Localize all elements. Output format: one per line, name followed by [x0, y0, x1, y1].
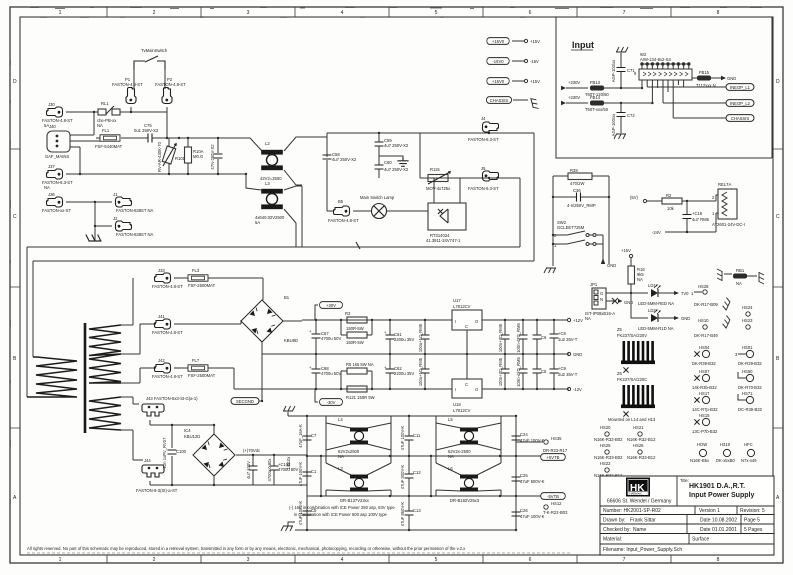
svg-text:L3: L3 [338, 466, 343, 471]
svg-text:GAF_MAINS: GAF_MAINS [45, 154, 69, 159]
capacitor C62 [384, 354, 414, 389]
svg-text:4u7 RM5: 4u7 RM5 [692, 217, 710, 222]
wire switch to fastons [134, 70, 165, 89]
right rail sw2 [608, 176, 610, 264]
checked row [603, 527, 763, 533]
choke L2 [236, 137, 327, 185]
faston P1 [112, 77, 143, 112]
svg-text:22n 1xPV_RV07: 22n 1xPV_RV07 [162, 437, 167, 469]
svg-text:5 Pages: 5 Pages [744, 527, 763, 533]
svg-text:FASTON-4.8-ST: FASTON-4.8-ST [155, 82, 186, 87]
svg-text:GND: GND [573, 352, 582, 357]
-24V wire [652, 213, 716, 235]
svg-text:Filename: Input_Power_Supply.S: Filename: Input_Power_Supply.Sch [603, 547, 682, 553]
svg-text:+15V: +15V [621, 248, 631, 253]
svg-text:HS26: HS26 [633, 443, 644, 448]
svg-text:R121 150R 5W: R121 150R 5W [346, 395, 375, 400]
capacitor C65 [498, 320, 510, 354]
chassis top of C71 [616, 47, 628, 67]
svg-text:N7x-x49: N7x-x49 [741, 458, 757, 463]
svg-text:C26: C26 [520, 508, 528, 513]
svg-text:DK-x5xB0: DK-x5xB0 [716, 458, 736, 463]
svg-text:R2: R2 [666, 193, 672, 198]
svg-text:NA: NA [637, 277, 643, 282]
svg-text:3: 3 [247, 10, 250, 16]
svg-text:+: + [309, 329, 312, 334]
pad HS17 [692, 391, 718, 412]
minus rail [234, 388, 569, 390]
capacitor C71 [611, 59, 635, 88]
faston J30 [42, 102, 73, 128]
wire IC4 top to rail [214, 484, 307, 486]
svg-text:Page 5: Page 5 [744, 518, 760, 524]
svg-text:CHASSIS: CHASSIS [731, 116, 750, 121]
faston J4 [468, 116, 499, 142]
choke L4 [338, 417, 368, 459]
svg-text:C6: C6 [541, 335, 547, 340]
svg-text:+15V0: +15V0 [492, 79, 505, 84]
left feed 230V N [561, 95, 588, 105]
pad HOW [690, 442, 710, 463]
svg-text:4u7 250V-X2: 4u7 250V-X2 [384, 167, 409, 172]
bridge rectifier IC4 [184, 424, 307, 486]
mid rail +5VT [306, 455, 541, 457]
svg-text:1: 1 [59, 557, 62, 563]
gnd rail [262, 353, 569, 355]
svg-text:N16K-R33-B12: N16K-R33-B12 [627, 455, 656, 460]
ferrite FB15 [692, 70, 721, 88]
connector J40 GAF_MAINS [45, 124, 100, 159]
svg-text:B: B [776, 356, 780, 362]
svg-text:J40: J40 [49, 124, 56, 129]
svg-text:HS12: HS12 [551, 501, 562, 506]
svg-text:+230V: +230V [568, 95, 580, 100]
Input title [571, 40, 594, 50]
fuse FL7 [174, 358, 234, 389]
svg-text:FASTON-xx-ST: FASTON-xx-ST [42, 208, 71, 213]
top section box inner [420, 133, 520, 247]
capacitor C101 [246, 455, 258, 485]
node junctions on 230V bus [166, 137, 219, 139]
svg-text:L4: L4 [338, 417, 343, 422]
wire RL1 to P1 junction [120, 111, 167, 113]
svg-text:(5V): (5V) [630, 195, 639, 200]
svg-text:47uF 500V-K: 47uF 500V-K [400, 465, 405, 490]
svg-text:J4: J4 [481, 116, 486, 121]
svg-text:Input: Input [572, 40, 594, 50]
svg-text:FB15: FB15 [699, 70, 710, 75]
svg-text:FK237/SA/220C: FK237/SA/220C [617, 377, 647, 382]
capacitor C16 [683, 201, 710, 232]
svg-text:47uF 100V-K: 47uF 100V-K [298, 462, 303, 487]
svg-text:100n+7C_RM5: 100n+7C_RM5 [498, 357, 503, 386]
svg-text:FASTON-4.8-ST: FASTON-4.8-ST [328, 218, 359, 223]
svg-text:C100: C100 [176, 449, 187, 454]
pad HFC [741, 442, 757, 463]
left rail sw2 [552, 176, 554, 266]
note text [289, 505, 395, 517]
svg-text:2: 2 [153, 557, 156, 563]
svg-text:HS21: HS21 [633, 425, 644, 430]
svg-text:B1: B1 [284, 295, 290, 300]
bridge rectifier B1 [241, 295, 302, 401]
svg-text:4u7 250V-X2: 4u7 250V-X2 [384, 143, 409, 148]
wires W2 to pills [647, 80, 726, 118]
svg-text:N16K-R32-B12: N16K-R32-B12 [627, 437, 656, 442]
svg-text:HS04: HS04 [699, 345, 710, 350]
svg-text:1: 1 [712, 211, 715, 216]
svg-text:HS17: HS17 [699, 391, 710, 396]
svg-text:INEOP_L1: INEOP_L1 [730, 85, 751, 90]
svg-text:47uF 100V-K: 47uF 100V-K [298, 501, 303, 526]
svg-text:J41: J41 [158, 314, 165, 319]
svg-text:M0.G: M0.G [193, 154, 203, 159]
wire J30 to switch RL1 [66, 111, 98, 113]
svg-text:GCLEET?25M: GCLEET?25M [557, 225, 585, 230]
svg-text:HK1901 D.A.,R.T.: HK1901 D.A.,R.T. [689, 483, 745, 490]
heatsink Z5 [617, 327, 655, 373]
earth at C59/C60 [379, 156, 409, 166]
svg-text:N: N [600, 297, 603, 302]
svg-text:+15V: +15V [530, 39, 540, 44]
svg-text:4u7 250V-X2: 4u7 250V-X2 [332, 157, 357, 162]
top section box outer [327, 133, 534, 261]
pill INEOP_L2 [726, 100, 754, 107]
ferrite FB13 [585, 80, 643, 97]
svg-text:NA: NA [44, 185, 50, 190]
svg-text:C11: C11 [413, 433, 421, 438]
svg-text:RL1: RL1 [101, 101, 109, 106]
svg-text:RV-AR-430K-70: RV-AR-430K-70 [157, 141, 162, 172]
svg-text:Number: HK2001-SP-R02: Number: HK2001-SP-R02 [603, 508, 661, 514]
svg-text:I: I [455, 387, 456, 392]
svg-text:100n-47C_RM5: 100n-47C_RM5 [516, 357, 521, 387]
svg-text:8: 8 [717, 557, 720, 563]
svg-text:FL3: FL3 [192, 268, 200, 273]
svg-text:LED-5MM-RED NA: LED-5MM-RED NA [638, 301, 674, 306]
resistor R5 [341, 362, 374, 389]
grid column numbers bottom [59, 557, 720, 563]
capacitor C36 [552, 188, 610, 208]
svg-text:HS01: HS01 [742, 345, 753, 350]
svg-text:L3: L3 [265, 181, 270, 186]
svg-text:FL1: FL1 [102, 128, 110, 133]
svg-text:6: 6 [529, 10, 532, 16]
ferrite RB1 with chassis [717, 268, 764, 286]
capacitor C6 [533, 320, 548, 354]
capacitor C9 [550, 354, 578, 389]
svg-text:HS71: HS71 [742, 391, 753, 396]
svg-text:A: A [776, 495, 780, 501]
svg-text:HOW: HOW [697, 442, 707, 447]
connector JP1 [585, 282, 631, 321]
svg-text:-24V: -24V [652, 230, 661, 235]
pad HS50 [738, 369, 762, 390]
capacitor C100 [162, 424, 187, 486]
svg-text:(+)70Vdc: (+)70Vdc [243, 448, 260, 453]
svg-text:0u1 250V-X2: 0u1 250V-X2 [134, 128, 159, 133]
pad HS28 [691, 284, 709, 296]
svg-text:H319: H319 [720, 442, 731, 447]
pad HS24 row [694, 298, 753, 317]
svg-text:GND: GND [727, 76, 736, 81]
svg-text:FASTON-6-3(St)-a-ST: FASTON-6-3(St)-a-ST [136, 488, 178, 493]
svg-text:+C9: +C9 [558, 366, 566, 371]
svg-text:1: 1 [59, 10, 62, 16]
varistor R115 [426, 167, 451, 191]
mid rail -5VT [307, 495, 541, 497]
svg-text:470/2W: 470/2W [570, 181, 584, 186]
faston J1 [95, 192, 154, 213]
svg-text:Drawn by:: Drawn by: [603, 518, 626, 524]
GND arrow input [721, 76, 736, 81]
svg-text:Revision: 5: Revision: 5 [740, 508, 765, 514]
capacitor C70 [516, 354, 528, 389]
svg-text:FASTON-638ST NA: FASTON-638ST NA [116, 208, 154, 213]
chassis bottom left [281, 522, 295, 531]
ground mains [86, 235, 102, 242]
svg-text:C13: C13 [413, 508, 421, 513]
capacitor C8 [550, 320, 578, 354]
drawn row [603, 518, 760, 524]
svg-text:C72: C72 [627, 113, 635, 118]
svg-text:N16K-R32-B02: N16K-R32-B02 [594, 437, 623, 442]
svg-text:Mounted on L14 and H13: Mounted on L14 and H13 [608, 417, 656, 422]
svg-text:JP1: JP1 [590, 282, 598, 287]
svg-text:-15V0: -15V0 [492, 59, 504, 64]
svg-text:MOV-4x725x: MOV-4x725x [426, 186, 451, 191]
svg-text:8: 8 [717, 10, 720, 16]
faston J2 [94, 216, 154, 237]
pad HS20 [594, 425, 623, 442]
earth ground sw2 [544, 266, 556, 273]
node +70V [243, 448, 275, 456]
svg-text:FSF-2500MAT: FSF-2500MAT [188, 373, 216, 378]
capacitor C61 [384, 320, 414, 354]
faston J5 [468, 166, 499, 191]
svg-text:47uF 500V-K: 47uF 500V-K [520, 479, 545, 484]
svg-text:L7912CV: L7912CV [453, 408, 471, 413]
svg-text:10k: 10k [667, 206, 675, 211]
svg-text:47uF 100V-K: 47uF 100V-K [520, 514, 545, 519]
left net pill +15V [487, 38, 540, 45]
svg-text:GND: GND [681, 316, 690, 321]
svg-text:HFC: HFC [744, 442, 753, 447]
LED LD1 [631, 283, 689, 306]
svg-text:5A: 5A [255, 220, 260, 225]
resistor R16 [628, 266, 645, 294]
left feed 230V L [561, 80, 588, 90]
svg-text:HS23: HS23 [742, 318, 753, 323]
svg-text:4-n/250V_RMP: 4-n/250V_RMP [567, 203, 596, 208]
resistor R3 [345, 311, 367, 331]
svg-text:7: 7 [623, 557, 626, 563]
svg-text:Version 1: Version 1 [699, 508, 720, 514]
wire J40 pins [80, 111, 95, 174]
title text [680, 478, 754, 499]
relay RT314024 [426, 178, 466, 243]
svg-text:+: + [384, 330, 387, 335]
svg-text:1/B10x: 1/B10x [286, 456, 291, 470]
capacitor C11 [400, 416, 421, 456]
faston J42 [152, 358, 183, 379]
pill -5VTB [541, 493, 566, 500]
left rail choke section [306, 416, 308, 530]
pad HS35 [516, 436, 568, 453]
svg-text:HS15: HS15 [699, 413, 710, 418]
svg-text:HS50: HS50 [742, 369, 753, 374]
choke L5 [448, 417, 478, 459]
pad HS25 [594, 443, 623, 460]
faston J36 [42, 192, 71, 213]
output +12V [567, 318, 583, 323]
resistor R2 [662, 193, 716, 211]
svg-text:Frank Sittar: Frank Sittar [630, 518, 656, 524]
choke L6 [448, 466, 480, 503]
svg-text:100n-47C_RM5: 100n-47C_RM5 [516, 323, 521, 353]
svg-text:HS20: HS20 [600, 425, 611, 430]
net label B10 [286, 456, 291, 470]
svg-text:FSF-2500MAT: FSF-2500MAT [188, 283, 216, 288]
GND arrow sw2 [601, 258, 617, 268]
svg-text:HS28: HS28 [698, 284, 709, 289]
pill +30V [315, 302, 342, 320]
svg-text:2u2 35V-T: 2u2 35V-T [558, 372, 578, 377]
fuse FL1 [95, 128, 148, 149]
svg-text:G: G [600, 291, 603, 296]
svg-text:DC-R39-B32: DC-R39-B32 [738, 407, 763, 412]
pill -30V [315, 389, 342, 405]
svg-text:Name: Name [633, 527, 647, 533]
plus rail [302, 319, 567, 321]
svg-text:FASTON-4.8-ST: FASTON-4.8-ST [112, 82, 143, 87]
pad HS07 [692, 369, 717, 390]
svg-text:C24: C24 [520, 432, 528, 437]
top rail choke [288, 415, 517, 417]
chassis top left [283, 406, 295, 416]
svg-text:FSF-5440MAT: FSF-5440MAT [95, 144, 123, 149]
svg-text:N16K-R33-B02: N16K-R33-B02 [594, 455, 623, 460]
svg-text:FB14: FB14 [590, 95, 601, 100]
svg-text:FASTON-6.3-ST: FASTON-6.3-ST [468, 137, 499, 142]
svg-text:B: B [13, 356, 17, 362]
svg-text:R115: R115 [430, 167, 440, 172]
svg-text:Main Switch Lamp: Main Switch Lamp [360, 195, 395, 200]
svg-text:NA: NA [585, 316, 591, 321]
switch SW2 [552, 220, 603, 264]
svg-text:47N-250V-X2: 47N-250V-X2 [210, 144, 215, 170]
choke group 1 box [321, 416, 391, 496]
svg-text:LED-5MM-R1D NA: LED-5MM-R1D NA [638, 326, 674, 331]
svg-text:R39: R39 [570, 168, 578, 173]
svg-text:HS24: HS24 [742, 305, 753, 310]
svg-text:J1: J1 [113, 192, 118, 197]
svg-text:FASTON-4.8-ST: FASTON-4.8-ST [152, 284, 183, 289]
svg-text:(-) 16V in combination with IC: (-) 16V in combination with ICE Power 25… [289, 505, 395, 510]
svg-text:HS25: HS25 [600, 443, 611, 448]
resistor R121 [346, 386, 375, 400]
pad HS12 [543, 501, 568, 515]
faston B5 [327, 199, 371, 223]
svg-text:2200u 35V: 2200u 35V [394, 337, 414, 342]
left net pill chassis [486, 97, 538, 110]
primary winding [27, 357, 77, 397]
pad HS10/HS23 row [694, 316, 753, 338]
resistor R39 [553, 168, 609, 186]
svg-text:C12: C12 [413, 470, 421, 475]
svg-text:C5: C5 [311, 508, 317, 513]
svg-text:5: 5 [435, 557, 438, 563]
fuse FL3 [174, 268, 263, 300]
svg-text:L2: L2 [265, 141, 270, 146]
capacitor C4 [210, 138, 223, 174]
capacitor C102 [267, 455, 298, 485]
svg-text:B5: B5 [338, 199, 344, 204]
svg-text:J42: J42 [158, 358, 165, 363]
svg-text:U18: U18 [453, 402, 461, 407]
svg-text:L5: L5 [448, 417, 453, 422]
capacitor C63 [418, 320, 430, 354]
svg-text:HS07: HS07 [699, 369, 710, 374]
svg-text:47uF 860V-K: 47uF 860V-K [400, 502, 405, 527]
main switch lamp [360, 195, 428, 219]
svg-text:4700u 50V: 4700u 50V [321, 336, 341, 341]
pad H319 [716, 442, 736, 463]
svg-text:DR-B182V25x3: DR-B182V25x3 [450, 498, 480, 503]
heatsink Z6 [608, 371, 656, 422]
svg-text:DR-B137V23xx: DR-B137V23xx [340, 498, 370, 503]
capacitor C67 [309, 320, 341, 354]
svg-text:HS10: HS10 [698, 318, 709, 323]
svg-text:A: A [13, 495, 17, 501]
varistor R101 [157, 138, 186, 174]
svg-text:J43 FASTON-6x3-St-G(a-1): J43 FASTON-6x3-St-G(a-1) [146, 396, 198, 401]
ferrite FB14 [585, 80, 654, 112]
svg-text:KBU12D: KBU12D [184, 434, 200, 439]
svg-text:J5: J5 [481, 166, 486, 171]
svg-text:Z6: Z6 [617, 371, 623, 376]
svg-text:+C16: +C16 [692, 211, 703, 216]
faston J37 [42, 164, 73, 190]
regulator U17 L7812CV [452, 298, 482, 354]
svg-text:5: 5 [435, 10, 438, 16]
faston P2 [155, 77, 186, 138]
long return wire B [33, 261, 534, 357]
svg-text:7V0: 7V0 [681, 291, 689, 296]
svg-text:C36: C36 [573, 188, 581, 193]
svg-text:J33: J33 [158, 268, 165, 273]
svg-text:RB1: RB1 [736, 268, 745, 273]
svg-text:100n+7C_RM5: 100n+7C_RM5 [498, 323, 503, 352]
svg-text:IC4: IC4 [184, 428, 191, 433]
faston J43 [142, 396, 214, 425]
svg-text:+C8: +C8 [558, 331, 566, 336]
pad HS04 [692, 345, 716, 366]
svg-text:AIW-134-9x2-S4: AIW-134-9x2-S4 [640, 57, 672, 62]
+5V feed [630, 195, 662, 203]
svg-text:9: 9 [634, 71, 637, 76]
svg-text:+15V0: +15V0 [492, 39, 505, 44]
svg-text:AGP-100/xx: AGP-100/xx [611, 59, 616, 82]
svg-text:Date 01.01.2001: Date 01.01.2001 [700, 527, 737, 533]
+15V source [621, 248, 633, 266]
output GND [567, 352, 582, 357]
svg-text:FL7: FL7 [192, 358, 200, 363]
svg-text:J44: J44 [144, 458, 151, 463]
svg-text:FASTON-638ST NA: FASTON-638ST NA [116, 232, 154, 237]
output -12V [567, 387, 582, 392]
svg-text:4700u 50V: 4700u 50V [321, 371, 341, 376]
